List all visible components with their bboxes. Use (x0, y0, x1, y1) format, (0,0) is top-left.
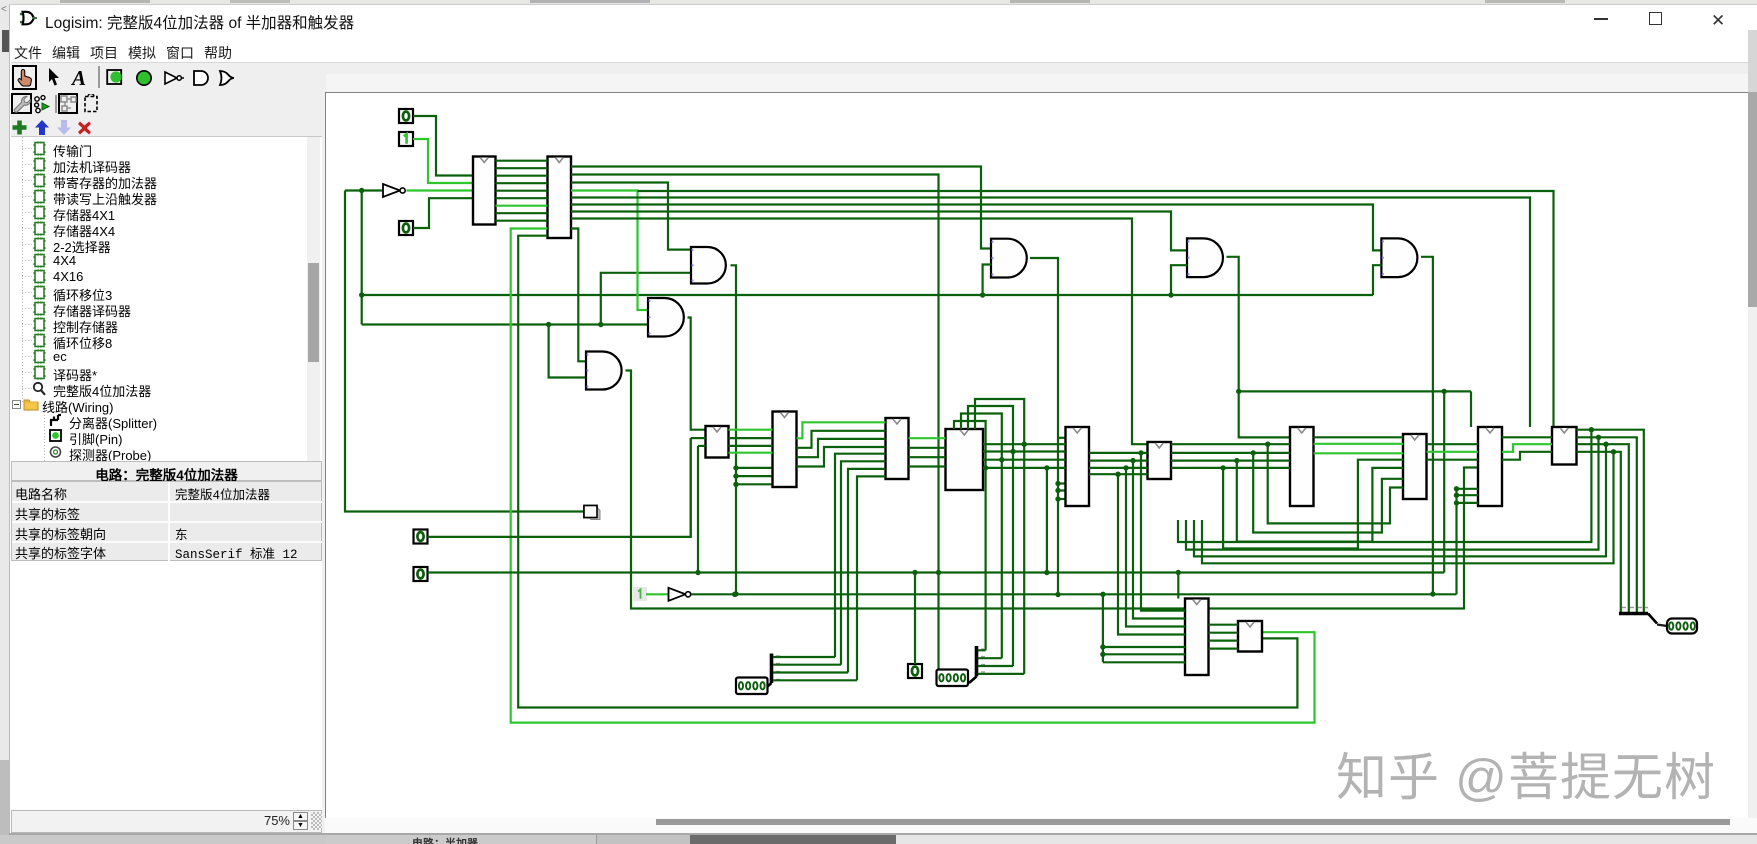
wire G2 tap1 to M5 (1058, 482, 1066, 484)
NOT gate U1 (383, 184, 405, 197)
node ltap3 (1220, 465, 1225, 470)
register M12 (1238, 621, 1262, 652)
wire L9 R2 stub to AND G3b top (571, 229, 586, 362)
wire Y295 to G2 lower (983, 265, 991, 296)
wire M10 out bit0 (1577, 430, 1644, 613)
wire M1-M2 bit3 bright (729, 452, 773, 454)
wire M8-M9 bright (1427, 451, 1479, 453)
wire M3-M4 b2 (909, 456, 946, 458)
wire L6 to AND G4 top (571, 205, 1381, 251)
input pin P4 value 0 (908, 664, 922, 678)
wire Y391 to M9 top (1470, 391, 1472, 427)
wire Y324 to AND G1 lower (601, 273, 691, 325)
wire Y295 to G3 lower (1171, 265, 1187, 295)
wire net Y572 long (428, 571, 1445, 573)
node S2 tap3 (1021, 442, 1026, 447)
register M6 (1148, 442, 1172, 479)
wire M11 feed bit0 (1141, 453, 1185, 611)
canvas horizontal scrollbar (326, 818, 1757, 833)
wire G2 tap2 to M5 (1058, 489, 1066, 491)
wire M10 loopback bit2 (1194, 444, 1606, 556)
node Y572 j M11 (1176, 570, 1181, 575)
wire P4 riser (914, 573, 916, 665)
attribute panel (11, 461, 322, 481)
wire Y295 to G4 lower (1373, 265, 1381, 295)
node G1 out tap1 (733, 465, 738, 470)
wire M11-M12 b2 (1209, 639, 1239, 641)
tree scrollbar (307, 137, 320, 461)
wire P5 wire (428, 438, 691, 537)
wire L2 down to probe PR2 (937, 573, 939, 671)
wire S1 leg3 (773, 679, 857, 681)
wire L2 long to probe column (571, 175, 939, 573)
wire S2 leg0 (978, 649, 986, 651)
register M3 (886, 418, 909, 479)
zoom bar (11, 810, 322, 833)
component SQ state box (584, 506, 600, 520)
wire M9-M10 b2 (1502, 452, 1552, 460)
wire M7-M8 bright2 (1314, 452, 1404, 454)
wire Y391 down to Y572 (1443, 391, 1445, 572)
wire loop tap0 (1268, 444, 1403, 523)
top strip of background window (11, 0, 1757, 5)
node S2 tap2 (1010, 449, 1015, 454)
wire G2 out to M5 pin1 (1058, 437, 1066, 439)
wire clock net vertical to SQ (345, 191, 584, 512)
register M10 (1552, 427, 1577, 465)
node M10 tap1 (1596, 435, 1601, 440)
wire M5-M6 b0 (1089, 452, 1148, 454)
wire M4-M5 b0 (983, 443, 1066, 445)
wire S2 leg1 (978, 657, 1002, 659)
wire M3-M4 b3 (909, 465, 946, 467)
AND gate G4 (1381, 238, 1417, 277)
wire Y572 riser to M1 pin3 (697, 446, 699, 573)
wire M3-M4 bright (909, 437, 946, 439)
wire M10 out bit1 (1577, 437, 1637, 612)
node G2 out at Y594 (1055, 592, 1060, 597)
register M9 (1478, 427, 1502, 506)
wire bus R1-R2 bit5 (496, 197, 548, 199)
node tap b1 (1130, 458, 1135, 463)
wire S2 riser bit3 (975, 399, 1024, 674)
wire M1-M2 bit0 bright (729, 429, 773, 431)
window bottom edge + background window strip (9, 833, 1757, 835)
wire M6-M7 b2 (1171, 460, 1290, 462)
AND gate G3 (1187, 238, 1223, 277)
wire G2 tap3 to M5 (1058, 498, 1066, 500)
node M9 tap2 (1454, 500, 1459, 505)
wire Y594 riser to M9 taps (1455, 489, 1457, 595)
wire P2 to register R1 input (413, 139, 473, 183)
node Y324 junction b (598, 322, 603, 327)
wire M11 feed bit2 (1126, 468, 1185, 627)
wire loop tap3 (1223, 460, 1403, 549)
node clock T-junction (359, 188, 364, 193)
wire bus R1-R2 bit8 (496, 220, 548, 222)
wire S2 riser bit1 (961, 414, 1002, 659)
register M1 (706, 426, 729, 458)
wire S2 riser bit0 (954, 421, 986, 650)
wire M4-M5 b3 (983, 467, 1066, 469)
AND gate G3b (586, 352, 622, 390)
wire M1 pin3 stub (698, 445, 706, 447)
register M2 (773, 412, 797, 488)
AND gate G1 (691, 247, 726, 284)
wire L1 to AND G2 top (571, 167, 991, 249)
wire P3 to register R1 input (413, 198, 473, 228)
wire net Y594 long NOT2 out (691, 593, 1456, 595)
node ltap0 (1265, 442, 1270, 447)
wire const stub (646, 593, 669, 595)
wire G1 tap3 to M2 (736, 483, 773, 485)
wire loop tap1 (1253, 453, 1403, 533)
wire feedback bright loop (511, 229, 1315, 723)
wire L4 bright to AND G2b top (571, 191, 648, 311)
wire M11-M12 b1 (1209, 632, 1239, 634)
wire S1 riser bit0 (835, 454, 886, 657)
node G1 out at Y594 (733, 591, 738, 596)
node tap b0 (1138, 450, 1143, 455)
wire S2 riser bit2 (968, 406, 1013, 666)
wire M7-M8 d (1314, 436, 1404, 438)
node M10 tap0 (1589, 427, 1594, 432)
wire M7-M8 bright1 (1314, 443, 1404, 445)
wire M10 loopback bit3 (1202, 452, 1614, 564)
splitter S1 (764, 654, 780, 690)
input pin P6 value 0 (414, 567, 428, 581)
node P4 at Y572 (912, 570, 917, 575)
register M5 (1066, 427, 1090, 506)
wire M11 f2 stub (1103, 661, 1185, 663)
wire bus R1-R2 bit3 (496, 182, 548, 184)
wire bus R1-R2 bit6 (496, 205, 548, 207)
wire M6-M7 b3 (1171, 467, 1290, 469)
input pin P1 value 0 (399, 109, 413, 123)
background sliver left (0, 0, 11, 844)
wire M3-M4 b1 (909, 447, 946, 449)
canvas vertical scrollbar (1748, 92, 1757, 818)
wire M9 tap2 stub (1457, 502, 1479, 504)
wire S2 leg3 (978, 673, 1024, 675)
wire G4 output (1421, 257, 1433, 594)
register R1 (473, 157, 496, 225)
wire G2b output to M1 (688, 318, 706, 430)
wire S1 riser bit3 (857, 476, 886, 680)
wire S1 leg2 (773, 671, 848, 673)
wire loop tap2 (1237, 461, 1403, 542)
wire net Y391 (1239, 390, 1471, 392)
wire M6-M7 b0 (1171, 443, 1290, 445)
wire M1-M2 bit1 (729, 437, 773, 439)
wire M11 lower feeder (1102, 594, 1104, 662)
wire M11-M12 b0 (1209, 624, 1239, 626)
node aux at Y572 (1044, 570, 1049, 575)
splitter S2 (969, 646, 985, 683)
node M10 tap3 (1611, 449, 1616, 454)
wire M2-M3 s3 (797, 447, 886, 467)
wire L7 to AND G3 top (571, 212, 1187, 251)
node G3 out at Y391 (1236, 389, 1241, 394)
probe output pin OUT 0000 (1667, 619, 1697, 634)
wire Y324 to AND G3b lower (549, 325, 586, 378)
node Y391 junction (1442, 389, 1447, 394)
wire G3 output (1227, 257, 1291, 438)
NOT gate U2 (669, 588, 691, 601)
node M11 f1 (1100, 652, 1105, 657)
wire NOT U1 input (345, 189, 383, 191)
wire M5-M6 b2 (1089, 467, 1148, 469)
AND gate G2 (991, 239, 1027, 278)
wire aux vertical x1047 (1046, 468, 1048, 573)
wire clock drop to bus Y295 (361, 191, 363, 325)
wire S1 leg0 (773, 656, 835, 658)
node Y295 junction G3 (1168, 292, 1173, 297)
register M8 (1403, 434, 1427, 499)
wire S1 riser bit2 (848, 469, 886, 673)
probe PR2 0000 (937, 670, 969, 687)
AND gate G2b (648, 298, 684, 337)
node tap b2 (1123, 465, 1128, 470)
toolbar (11, 62, 1757, 74)
wire M10 loopback bit1 (1186, 437, 1599, 549)
wire M10 out bit2 (1577, 444, 1629, 612)
input pin P2 value 1 (399, 132, 413, 146)
wire bus R1-R2 bit2 (496, 175, 548, 177)
wire M4-M5 b2 (983, 459, 1066, 461)
wire S2 leg2 (978, 665, 1013, 667)
wire NOT U1 output to R1 (407, 189, 474, 191)
splitter S3 output (1619, 608, 1657, 624)
panel divider (322, 92, 325, 833)
wire M10 loopback bit0 (1178, 430, 1591, 542)
window buttons (1594, 18, 1608, 20)
wire P5 riser to M1 pin2 (690, 438, 692, 537)
node Y572 junction M1 (695, 570, 700, 575)
node M10 tap2 (1603, 442, 1608, 447)
wire feedback dark loop (518, 236, 1297, 708)
wire M9-M10 b0 (1502, 436, 1552, 438)
wire splitter to output pin (1657, 625, 1667, 627)
node G4 out at Y594 (1430, 591, 1435, 596)
wire P1 to register R1 input (413, 116, 473, 176)
wire M1-M2 bit2 (729, 445, 773, 447)
left tree panel (11, 136, 322, 461)
menu bar (11, 40, 1757, 62)
node Y324 junction a (546, 322, 551, 327)
wire M11 feed bit3 (1118, 474, 1185, 634)
register M11 (1185, 599, 1209, 676)
wire bus R1-R2 bit7 (496, 212, 548, 214)
wire net Y295 long (362, 294, 1373, 296)
node tap b3 (1115, 472, 1120, 477)
wire G1 tap2 to M2 (736, 475, 773, 477)
wire M9 tap1 stub (1457, 494, 1479, 496)
wire M4-M5 b1 (983, 450, 1066, 452)
wire G1 output (731, 265, 737, 594)
node S2 tap0 (983, 465, 988, 470)
probe PR1 0000 (736, 678, 768, 695)
wire G3b output (626, 371, 1479, 609)
label value 1 (633, 587, 647, 601)
node Y594 j1 (732, 592, 737, 597)
node G2 out tap1 (1055, 481, 1060, 486)
input pin P3 value 0 (399, 221, 413, 235)
wire M9 tap0 stub (1457, 488, 1479, 490)
wire M9-M10 bright (1502, 444, 1552, 452)
wire S1 leg1 (773, 664, 841, 666)
wire M10 out bit3 (1577, 452, 1621, 613)
node S2 tap1 (999, 457, 1004, 462)
wire net Y324 long (362, 323, 648, 325)
wire M11 feed bit1 (1133, 461, 1185, 619)
node G1 out tap2 (733, 473, 738, 478)
wire M2-M3 s2 (797, 439, 886, 457)
register M4 (946, 429, 984, 490)
node M9 tap1 (1454, 493, 1459, 498)
wire bus R1-R2 bit0 (496, 160, 548, 162)
watermark (1336, 736, 1716, 810)
wire S1 riser bit1 (841, 461, 886, 664)
wire L5 long (571, 198, 1530, 428)
wire L3 to AND G1 top (571, 183, 691, 250)
node ltap2 (1234, 458, 1239, 463)
wire M11 f1 stub (1103, 653, 1185, 655)
node G2 out tap3 (1055, 496, 1060, 501)
wire M8-M9 b0 (1427, 443, 1479, 445)
wire M11-M12 b3 (1209, 647, 1239, 649)
title bar (18, 10, 38, 32)
node aux tap (1044, 465, 1049, 470)
node M9 tap0 (1454, 486, 1459, 491)
wire M2-M3 s1 (797, 431, 886, 448)
node L2 at Y572 (936, 570, 941, 575)
node junction on Y295 (359, 292, 364, 297)
node ltap1 (1251, 450, 1256, 455)
node G2 out tap2 (1055, 488, 1060, 493)
node G1 out tap3 (733, 482, 738, 487)
wire M5-M6 b1 (1089, 460, 1148, 462)
node Y295 junction G2 (980, 292, 985, 297)
wire M2-M3 bright (797, 422, 886, 438)
wire L4b dark long to M10 (638, 191, 1554, 427)
register R2 (548, 157, 572, 239)
node M11 f0 (1100, 644, 1105, 649)
canvas (325, 92, 1757, 818)
wire G2 output (1030, 258, 1058, 595)
wire G1 tap1 to M2 (736, 467, 773, 469)
wire bus R1-R2 bit1 (496, 167, 548, 169)
wire M6-M7 b1 (1171, 452, 1290, 454)
input pin P5 value 0 (414, 530, 428, 544)
node Y594 j2 (1100, 592, 1105, 597)
wire M8-M9 b2 (1427, 459, 1479, 461)
wire M11 clock (1177, 573, 1179, 599)
wire M11 f0 stub (1103, 646, 1185, 648)
wire bus R1-R2 bit4 (496, 190, 548, 192)
wire L8 to M6 (571, 219, 1148, 445)
wire M5-M6 b3 (1089, 473, 1148, 475)
wire M1 pin2 stub (691, 437, 706, 439)
register M7 (1290, 427, 1314, 506)
